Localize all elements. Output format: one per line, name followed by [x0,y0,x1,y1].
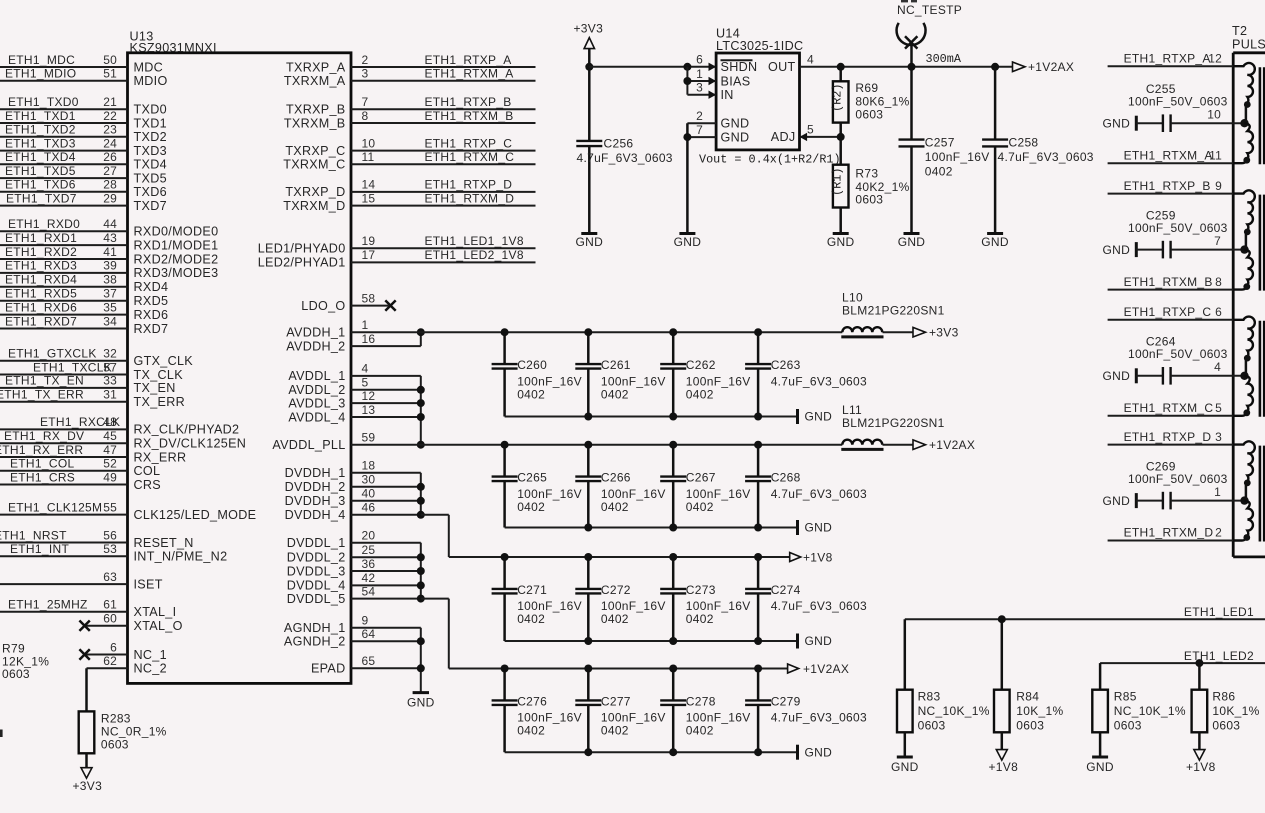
svg-text:ETH1_LED2_1V8: ETH1_LED2_1V8 [425,248,524,262]
svg-text:100nF_16V: 100nF_16V [517,487,582,501]
svg-text:GTX_CLK: GTX_CLK [134,354,194,368]
svg-text:ETH1_RTXM_C: ETH1_RTXM_C [1124,401,1214,415]
svg-text:ETH1_RTXP_B: ETH1_RTXP_B [1124,179,1211,193]
svg-text:64: 64 [362,627,376,641]
svg-text:0402: 0402 [686,500,714,514]
capacitor C258 4.7uF_6V3_0603 [982,67,1094,234]
power +1V2AX arrow (AVDDL rail) [913,438,975,452]
pin 55 CLK125/LED_MODE / wire ETH1_CLK125M [0,500,256,522]
svg-text:0402: 0402 [925,165,953,179]
svg-text:0402: 0402 [601,724,629,738]
power +1V2AX arrow (LDO out) [1013,60,1075,74]
capacitor C257 100nF_16V 0402 [899,67,990,234]
svg-text:5: 5 [362,376,369,390]
pin 11 TXRXM_C / wire ETH1_RTXM_C [283,150,535,172]
svg-text:ETH1_LED1_1V8: ETH1_LED1_1V8 [425,234,524,248]
capacitor C278 100nF_16V [660,669,750,753]
pin 23 TXD2 / wire ETH1_TXD2 [0,123,167,145]
capacitor C261 100nF_16V [575,332,665,416]
ground GND below U14 [674,234,702,250]
svg-text:100nF_16V: 100nF_16V [517,599,582,613]
IC U13 KSZ9031MNXI body [128,30,352,684]
svg-text:12: 12 [362,389,376,403]
svg-text:C267: C267 [686,471,716,485]
svg-text:GND: GND [805,410,833,424]
svg-text:62: 62 [103,654,117,668]
ground GND below R73 [827,234,855,250]
capacitor C276 100nF_16V [492,669,582,753]
pin 50 MDC / wire ETH1_MDC [0,53,163,75]
svg-text:AVDDH_1: AVDDH_1 [286,326,345,340]
svg-text:63: 63 [103,570,117,584]
svg-text:24: 24 [103,136,117,150]
svg-text:KSZ9031MNXI: KSZ9031MNXI [130,41,217,55]
svg-text:RX_DV/CLK125EN: RX_DV/CLK125EN [134,437,247,451]
svg-text:(R2): (R2) [831,84,845,112]
svg-text:NC_2: NC_2 [134,662,167,676]
svg-text:NC_10K_1%: NC_10K_1% [1114,704,1186,718]
svg-text:36: 36 [362,557,376,571]
svg-text:3: 3 [362,67,369,81]
svg-text:37: 37 [103,287,117,301]
pin 1 BIAS [687,67,750,89]
svg-text:43: 43 [103,231,117,245]
svg-text:ETH1_TXD3: ETH1_TXD3 [5,136,76,150]
capacitor C272 100nF_16V [575,557,665,641]
wire AVDDL tie vertical [417,376,425,449]
ferrite bead L10 BLM21PG220SN1 [841,291,944,337]
pin 2 GND [687,109,749,131]
svg-text:OUT: OUT [768,60,795,74]
power +3V3 arrow top (LDO input) [574,22,604,49]
svg-text:GND: GND [1103,494,1131,508]
svg-text:C262: C262 [686,358,716,372]
svg-text:GND: GND [674,235,702,249]
svg-text:COL: COL [134,464,161,478]
svg-text:BIAS: BIAS [721,74,751,88]
pin 18 DVDDH_1 stub [285,459,421,481]
svg-text:GND: GND [981,235,1009,249]
svg-text:DVDDL_4: DVDDL_4 [287,579,346,593]
svg-text:RXD7: RXD7 [134,322,169,336]
svg-text:TXRXM_C: TXRXM_C [283,158,345,172]
svg-text:33: 33 [103,374,117,388]
svg-text:53: 53 [103,542,117,556]
wire AVDDL_PLL +1V2AX rail [351,441,913,449]
svg-text:5: 5 [1215,401,1222,415]
svg-text:ETH1_TXD5: ETH1_TXD5 [5,164,76,178]
pin 3 IN [687,81,733,103]
svg-text:0402: 0402 [686,612,714,626]
svg-text:ETH1_RX_DV: ETH1_RX_DV [4,429,84,443]
svg-text:56: 56 [103,528,117,542]
pin 62 NC_2 / wire n/c [87,654,167,676]
svg-text:0402: 0402 [517,387,545,401]
svg-text:0402: 0402 [686,387,714,401]
svg-text:ETH1_TXD0: ETH1_TXD0 [8,95,79,109]
pin 6 SHDN [696,53,757,75]
svg-text:TX_CLK: TX_CLK [134,368,184,382]
svg-text:RXD4: RXD4 [134,280,169,294]
svg-text:AVDDL_1: AVDDL_1 [288,369,345,383]
svg-text:100nF_16V: 100nF_16V [517,711,582,725]
svg-text:5: 5 [807,122,814,136]
pin 63 ISET / wire n/c [0,570,163,592]
wire +3V3 vertical to C256 and LDO [585,49,716,141]
power +3V3 arrow below R283 [73,768,103,793]
wire ETH1_RTXM_A [1108,148,1234,163]
svg-text:C274: C274 [771,583,801,597]
capacitor C279 4.7uF_6V3_0603 [745,669,867,753]
svg-text:100nF_50V_0603: 100nF_50V_0603 [1128,221,1228,235]
svg-text:45: 45 [103,429,117,443]
svg-text:0603: 0603 [855,193,883,207]
wire GND return row (C260..) [505,413,798,421]
svg-text:ETH1_RXCLK: ETH1_RXCLK [40,415,120,429]
svg-text:ETH1_RXD3: ETH1_RXD3 [5,259,77,273]
pin 30 DVDDH_2 stub [285,473,421,495]
svg-text:ETH1_RTXP_C: ETH1_RTXP_C [425,136,513,150]
pin 33 TX_EN / wire ETH1_TX_EN [0,374,176,396]
svg-text:C273: C273 [686,583,716,597]
svg-text:RESET_N: RESET_N [134,536,194,550]
svg-text:DVDDL_3: DVDDL_3 [287,564,346,578]
capacitor C260 100nF_16V [492,332,582,416]
svg-text:C263: C263 [771,358,801,372]
wire GND return row (C271..) [505,637,798,645]
svg-text:4.7uF_6V3_0603: 4.7uF_6V3_0603 [771,711,867,725]
pin 47 RX_ERR / wire ETH1_RX_ERR [0,443,186,465]
wire ETH1_LED1 [905,605,1265,623]
resistor R283 NC_0R_1% 0603 [79,711,167,768]
svg-text:GND: GND [721,117,750,131]
wire ETH1_RTXM_C [1108,401,1234,416]
svg-text:LED2/PHYAD1: LED2/PHYAD1 [258,256,346,270]
svg-text:ETH1_RTXM_D: ETH1_RTXM_D [425,191,515,205]
svg-text:19: 19 [362,234,376,248]
svg-text:RXD0/MODE0: RXD0/MODE0 [134,225,219,239]
svg-text:60: 60 [103,612,117,626]
transformer core bars section D [1260,446,1264,542]
svg-text:ETH1_INT: ETH1_INT [10,542,69,556]
wire BIAS/IN tie to +3V3 [683,67,691,95]
svg-text:DVDDH_1: DVDDH_1 [285,466,346,480]
wire DVDDL +1V2AX rail [449,665,788,673]
svg-text:10K_1%: 10K_1% [1016,704,1063,718]
capacitor C268 4.7uF_6V3_0603 [745,445,867,528]
svg-text:DVDDH_4: DVDDH_4 [285,508,346,522]
op-amp U14 LTC3025-1IDC body [716,27,803,150]
svg-text:+1V8: +1V8 [989,760,1019,774]
svg-text:35: 35 [103,300,117,314]
svg-text:29: 29 [103,191,117,205]
svg-text:XTAL_I: XTAL_I [134,605,177,619]
svg-text:GND: GND [898,235,926,249]
svg-text:AGNDH_1: AGNDH_1 [284,621,346,635]
resistor R85 NC_10K_1% 0603 [1092,663,1186,757]
wire GND return row (C276..) [505,748,798,756]
svg-text:Vout = 0.4x(1+R2/R1): Vout = 0.4x(1+R2/R1) [699,152,841,166]
svg-text:DVDDL_5: DVDDL_5 [287,592,346,606]
svg-text:C265: C265 [517,471,547,485]
wire ETH1_RTXM_B [1108,275,1234,290]
svg-text:RXD1/MODE1: RXD1/MODE1 [134,238,219,252]
svg-text:ETH1_TXCLK: ETH1_TXCLK [33,360,112,374]
ground GND right of row C260 [798,409,833,424]
resistor R86 10K_1% 0603 [1192,663,1260,749]
svg-text:ETH1_RTXP_D: ETH1_RTXP_D [425,178,513,192]
svg-text:AVDDL_PLL: AVDDL_PLL [272,438,345,452]
ground GND right of row C271 [798,634,833,649]
pin 58 LDO_O (no connect) [301,291,395,313]
svg-text:TXD2: TXD2 [134,130,167,144]
capacitor C263 4.7uF_6V3_0603 [745,332,867,416]
wire NC_2 to R283 [85,668,88,711]
pin 31 TX_ERR / wire ETH1_TX_ERR [0,388,185,410]
power +1V8 arrow below R86 [1186,750,1216,774]
pin 49 CRS / wire ETH1_CRS [0,470,161,492]
svg-text:CLK125/LED_MODE: CLK125/LED_MODE [134,508,257,522]
svg-text:38: 38 [103,273,117,287]
svg-text:TXRXP_A: TXRXP_A [286,60,346,74]
svg-text:+1V8: +1V8 [803,550,833,564]
pin 24 TXD3 / wire ETH1_TXD3 [0,136,167,158]
pin 39 RXD3/MODE3 / wire ETH1_RXD3 [0,259,218,281]
wire U14 GND pins to ground [683,123,691,233]
svg-text:C278: C278 [686,694,716,708]
svg-text:ETH1_RTXM_C: ETH1_RTXM_C [425,150,515,164]
svg-text:65: 65 [362,654,376,668]
svg-text:0603: 0603 [1114,718,1142,732]
svg-text:0402: 0402 [601,500,629,514]
pin 22 TXD1 / wire ETH1_TXD1 [0,109,167,131]
svg-text:ETH1_RXD1: ETH1_RXD1 [5,231,77,245]
pin 38 RXD4 / wire ETH1_RXD4 [0,273,168,295]
pin 27 TXD5 / wire ETH1_TXD5 [0,164,167,186]
pin 42 DVDDL_4 stub [287,571,421,593]
winding T2 primary B upper [1233,190,1255,253]
pin 4 OUT / wire +1V2AX output [768,52,1012,74]
power +3V3 arrow (AVDDH rail) [913,326,959,340]
capacitor C277 100nF_16V [575,669,665,753]
svg-text:BLM21PG220SN1: BLM21PG220SN1 [842,304,945,318]
pin 32 GTX_CLK / wire ETH1_GTXCLK [0,347,193,369]
capacitor C262 100nF_16V [660,332,750,416]
pin 54 DVDDL_5 stub [287,584,421,606]
svg-text:ETH1_RXD7: ETH1_RXD7 [5,314,77,328]
svg-text:ETH1_TXD2: ETH1_TXD2 [5,123,76,137]
svg-text:6: 6 [696,53,703,67]
svg-text:EPAD: EPAD [311,662,346,676]
svg-text:ETH1_TXD1: ETH1_TXD1 [5,109,76,123]
svg-text:0603: 0603 [918,718,946,732]
ferrite bead L11 BLM21PG220SN1 [841,403,944,449]
svg-text:ETH1_TXD4: ETH1_TXD4 [5,150,76,164]
pin 34 RXD7 / wire ETH1_RXD7 [0,314,168,336]
svg-text:ETH1_RXD5: ETH1_RXD5 [5,287,77,301]
transformer T2 PULSE body [1232,24,1265,557]
wire ETH1_RTXP_A [1108,51,1234,66]
svg-text:11: 11 [1209,148,1222,162]
svg-text:28: 28 [103,178,117,192]
capacitor C273 100nF_16V [660,557,750,641]
pin 17 LED2/PHYAD1 / wire ETH1_LED2_1V8 [258,248,536,270]
svg-text:49: 49 [103,470,117,484]
svg-text:GND: GND [407,696,435,710]
wire stub cut at sheet edge [0,730,3,738]
svg-text:0402: 0402 [686,724,714,738]
svg-text:C268: C268 [771,471,801,485]
wire R69-R73 junction / ADJ tap [837,123,845,165]
svg-text:1: 1 [1214,485,1221,499]
winding T2 primary A lower [1233,123,1253,163]
ground GND right of row C276 [798,745,833,760]
capacitor C256 4.7uF_6V3_0603 [576,136,673,233]
svg-text:ETH1_TX_EN: ETH1_TX_EN [5,374,84,388]
resistor R79 12K_1% labels (off-sheet) [2,642,49,681]
svg-text:RX_ERR: RX_ERR [134,450,187,464]
svg-text:50: 50 [103,53,117,67]
capacitor C255 100nF_50V_0603 (center tap A) [1103,82,1245,132]
svg-text:AVDDL_2: AVDDL_2 [288,383,345,397]
capacitor C264 100nF_50V_0603 (center tap C) [1103,335,1245,385]
svg-text:+3V3: +3V3 [73,779,103,793]
svg-text:ETH1_NRST: ETH1_NRST [0,528,67,542]
svg-text:CRS: CRS [134,478,162,492]
pin 4 AVDDL_1 stub [288,362,420,384]
svg-text:100nF_16V: 100nF_16V [601,711,666,725]
svg-text:TXRXP_C: TXRXP_C [285,144,345,158]
resistor R73 40K2_1% (R1) [831,165,910,234]
pin 7 TXRXP_B / wire ETH1_RTXP_B [286,95,536,117]
svg-text:LTC3025-1IDC: LTC3025-1IDC [716,39,803,53]
svg-text:ISET: ISET [134,577,163,591]
svg-text:C271: C271 [517,583,547,597]
winding T2 primary C lower [1233,376,1253,416]
pin 14 TXRXP_D / wire ETH1_RTXP_D [285,178,535,200]
svg-text:300mA: 300mA [926,52,962,66]
svg-text:0402: 0402 [601,612,629,626]
capacitor C271 100nF_16V [492,557,582,641]
svg-text:GND: GND [1086,760,1114,774]
wire ETH1_LED2 [1100,649,1265,667]
pin 56 RESET_N / wire ETH1_NRST [0,528,194,550]
svg-text:3: 3 [696,81,703,95]
svg-text:55: 55 [103,500,117,514]
svg-text:51: 51 [103,67,117,81]
svg-text:AGNDH_2: AGNDH_2 [284,635,346,649]
wire ETH1_RTXP_C [1108,305,1234,320]
svg-text:42: 42 [362,571,376,585]
svg-text:7: 7 [1214,234,1221,248]
svg-text:22: 22 [103,109,117,123]
svg-text:100nF_16V: 100nF_16V [601,487,666,501]
svg-text:4: 4 [807,53,814,67]
winding T2 primary D lower [1233,501,1253,541]
pin 5 ADJ [771,122,841,144]
svg-text:TXD7: TXD7 [134,199,167,213]
ground GND below C256 [576,234,604,250]
wire AGNDH/EPAD tie vertical [417,628,425,693]
wire DVDDH +1V8 rail [449,553,790,561]
svg-text:1: 1 [696,67,703,81]
svg-text:ETH1_RTXP_B: ETH1_RTXP_B [425,95,512,109]
svg-text:ETH1_RX_ERR: ETH1_RX_ERR [0,443,83,457]
svg-text:C266: C266 [601,471,631,485]
svg-text:+1V2AX: +1V2AX [929,438,975,452]
svg-text:C258: C258 [1009,136,1039,150]
svg-text:ETH1_COL: ETH1_COL [10,457,74,471]
svg-text:0603: 0603 [1212,718,1240,732]
pin 26 TXD4 / wire ETH1_TXD4 [0,150,167,172]
svg-text:59: 59 [362,431,376,445]
svg-text:30: 30 [362,473,376,487]
svg-text:100nF_50V_0603: 100nF_50V_0603 [1128,347,1228,361]
svg-text:TX_ERR: TX_ERR [134,395,186,409]
svg-text:100nF_16V: 100nF_16V [686,711,751,725]
svg-text:ETH1_RTXP_A: ETH1_RTXP_A [425,53,512,67]
svg-text:1: 1 [362,318,369,332]
svg-text:0402: 0402 [517,612,545,626]
svg-text:C260: C260 [517,358,547,372]
svg-text:ETH1_RTXM_A: ETH1_RTXM_A [425,67,514,81]
svg-text:INT_N/PME_N2: INT_N/PME_N2 [134,550,228,564]
pin 1 AVDDH_1 stub [286,318,368,340]
svg-text:PULSE: PULSE [1232,38,1265,52]
svg-text:R69: R69 [855,81,878,95]
svg-text:2: 2 [696,109,703,123]
svg-text:4.7uF_6V3_0603: 4.7uF_6V3_0603 [771,599,867,613]
pin 8 TXRXM_B / wire ETH1_RTXM_B [284,109,536,131]
pin 53 INT_N/PME_N2 / wire ETH1_INT [0,542,227,564]
svg-text:ETH1_TX_ERR: ETH1_TX_ERR [0,388,84,402]
svg-text:DVDDH_2: DVDDH_2 [285,480,346,494]
svg-text:15: 15 [362,191,376,205]
svg-text:14: 14 [362,178,376,192]
svg-text:+1V2AX: +1V2AX [1028,60,1074,74]
wire DVDDL tie vertical + jog to +1V2AX rail [417,543,449,669]
svg-text:8: 8 [1215,275,1222,289]
svg-text:+1V8: +1V8 [1186,760,1216,774]
resistor R83 NC_10K_1% 0603 [897,619,990,757]
svg-text:SHDN: SHDN [721,60,758,74]
svg-text:100nF_16V: 100nF_16V [517,374,582,388]
svg-text:18: 18 [362,459,376,473]
value label Vout formula [699,152,841,166]
svg-text:TXD0: TXD0 [134,103,167,117]
power +1V8 arrow (DVDDH rail) [790,550,833,564]
power +1V8 arrow below R84 [989,750,1019,774]
svg-text:NC_TESTP: NC_TESTP [897,3,962,17]
svg-text:MDC: MDC [134,60,164,74]
ground GND below C257 [898,234,926,250]
svg-text:RXD6: RXD6 [134,308,169,322]
svg-text:16: 16 [362,332,376,346]
svg-text:100nF_16V: 100nF_16V [601,599,666,613]
wire ETH1_RTXM_D [1108,526,1234,541]
svg-text:0402: 0402 [517,500,545,514]
svg-text:ETH1_RTXM_A: ETH1_RTXM_A [1124,148,1213,162]
svg-text:R73: R73 [855,167,878,181]
svg-text:AVDDH_2: AVDDH_2 [286,339,345,353]
svg-text:IN: IN [721,88,734,102]
pin 25 DVDDL_2 stub [287,543,421,565]
svg-text:40: 40 [362,487,376,501]
svg-text:ETH1_TXD6: ETH1_TXD6 [5,178,76,192]
winding T2 primary A upper [1233,63,1255,127]
svg-text:ETH1_RTXM_D: ETH1_RTXM_D [1124,526,1214,540]
capacitor C274 4.7uF_6V3_0603 [745,557,867,641]
